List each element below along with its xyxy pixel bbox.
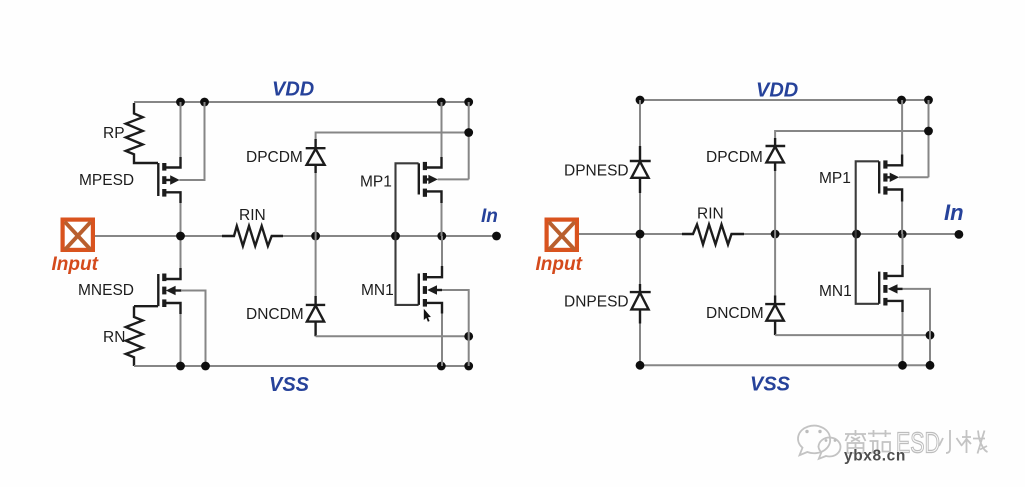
wire input rail right segment pad to RIN — [579, 233, 682, 235]
diode DPCDM right — [766, 138, 786, 171]
wire DPNESD cathode from VDD — [639, 100, 641, 147]
svg-text:Input: Input — [536, 254, 583, 275]
wire DPCDM anode to input rail — [315, 173, 317, 236]
junction on VSS rail at MNESD body column — [201, 362, 210, 371]
junction on VSS rail at MN1 body column right — [926, 361, 935, 370]
junction on VSS rail at ESD diode column right — [636, 361, 645, 370]
input pad left — [63, 220, 93, 250]
diode DNPESD — [630, 284, 651, 324]
wire DPCDM branch upper line to VDD right — [775, 131, 928, 139]
svg-text:In: In — [481, 206, 498, 227]
resistor RN — [126, 306, 143, 366]
wire MNESD drain to input rail — [180, 236, 182, 268]
transistor MP1 right (PMOS) — [879, 155, 902, 202]
junction on VSS rail at MN1 body column — [464, 362, 473, 371]
diode DNCDM right — [765, 296, 785, 336]
junction input rail at MP1/MN1 gate column — [391, 232, 400, 241]
wire input rail right segment RIN to In terminal — [744, 233, 959, 235]
wire MP1 source to VDD right — [901, 100, 903, 155]
wire DNPESD cathode from input rail — [639, 234, 641, 285]
svg-text:DPNESD: DPNESD — [564, 163, 629, 180]
diode DPCDM left — [306, 139, 326, 173]
resistor RP — [126, 103, 158, 163]
svg-text:RP: RP — [103, 125, 125, 142]
wire MNESD body to VSS — [181, 291, 206, 367]
wire MN1 drain to input rail — [441, 236, 443, 266]
junction input rail at DPCDM/DNCDM column — [771, 230, 780, 239]
wire MN1 body to VSS right — [903, 289, 931, 365]
transistor MPESD (PMOS) — [158, 157, 180, 203]
transistor MN1 right (NMOS) — [879, 265, 902, 312]
junction DNCDM line at MN1 body column — [464, 332, 473, 341]
svg-text:MP1: MP1 — [360, 174, 392, 191]
wire MP1 drain to input rail — [441, 203, 443, 236]
wire DPNESD anode to input rail — [639, 193, 641, 234]
junction on VSS rail at MN1 source column — [437, 362, 446, 371]
node In terminal dot left — [492, 232, 501, 241]
wire DPCDM anode to input rail right — [774, 171, 776, 234]
svg-text:Input: Input — [52, 254, 99, 275]
svg-text:MN1: MN1 — [819, 283, 852, 300]
wire VSS rail right circuit — [640, 364, 930, 366]
wire DNCDM anode line to MN1 body column — [316, 335, 469, 337]
wire MP1 body column to VDD — [468, 102, 470, 179]
svg-text:VDD: VDD — [756, 80, 798, 102]
wire DNCDM cathode from input rail right — [774, 234, 776, 297]
wire DPCDM branch upper line to VDD — [316, 133, 469, 141]
wire DNPESD anode to VSS — [639, 324, 641, 366]
svg-text:VSS: VSS — [269, 374, 310, 396]
svg-text:RIN: RIN — [239, 207, 266, 224]
svg-text:VDD: VDD — [272, 79, 314, 101]
svg-text:DPCDM: DPCDM — [706, 149, 763, 166]
watermark glyph xiao (小) — [939, 430, 962, 453]
resistor RIN left — [222, 226, 283, 246]
wire VSS rail left circuit — [134, 365, 469, 367]
wire MP1 body to body column right — [899, 176, 929, 178]
junction on VDD rail at MPESD body column — [200, 98, 209, 107]
junction DNCDM line at MN1 body column right — [926, 331, 935, 340]
wire MN1 source to VSS right — [902, 312, 904, 365]
wire MPESD source to VDD — [180, 102, 182, 157]
junction input rail at MP1/MN1 gate column — [852, 230, 861, 239]
diode DNCDM left — [306, 296, 325, 336]
svg-text:MNESD: MNESD — [78, 282, 134, 299]
svg-text:MN1: MN1 — [361, 282, 394, 299]
wire MPESD drain to input rail — [180, 203, 182, 236]
junction input rail at MPESD/MNESD drains — [176, 232, 185, 241]
wire MP1 drain to input rail right — [901, 202, 903, 235]
svg-text:MPESD: MPESD — [79, 172, 134, 189]
wire DNCDM cathode from input rail — [315, 236, 317, 297]
transistor MN1 left (NMOS) — [419, 266, 442, 314]
wire MN1 source to VSS — [441, 314, 443, 367]
node In terminal dot right — [955, 230, 964, 239]
junction on VDD rail at MP1 body column — [464, 98, 473, 107]
svg-text:ybx8.cn: ybx8.cn — [844, 448, 906, 465]
wire MP1 body to body column — [438, 178, 469, 180]
junction input rail at ESD diode column — [636, 230, 645, 239]
wire MP1/MN1 gate column right — [856, 161, 879, 303]
wire VDD rail left circuit — [134, 101, 469, 103]
wire MP1/MN1 gate column — [396, 163, 419, 305]
junction upper line at MP1 body column right — [924, 127, 933, 136]
watermark icon chat bubbles — [798, 426, 840, 459]
diode DPNESD — [630, 146, 651, 193]
wire input rail left segment pad to RIN — [95, 235, 222, 237]
junction on VSS rail at MNESD source column — [176, 362, 185, 371]
wire MP1 source to VDD — [441, 102, 443, 157]
junction on VDD rail at MP1 source column — [437, 98, 446, 107]
svg-text:DPCDM: DPCDM — [246, 149, 303, 166]
junction input rail at MP1/MN1 drain column — [898, 230, 907, 239]
junction on VDD rail at DPNESD column — [636, 96, 645, 105]
junction on VSS rail at MN1 source column right — [898, 361, 907, 370]
mouse cursor artifact — [424, 309, 431, 322]
wire MN1 drain to input rail right — [902, 234, 904, 265]
transistor MNESD (NMOS) — [134, 268, 182, 314]
watermark glyph fan (番) — [845, 430, 866, 453]
wire MP1 body column to VDD right — [928, 100, 930, 177]
svg-text:DNCDM: DNCDM — [246, 306, 304, 323]
junction on VDD rail at MP1 source column — [897, 96, 906, 105]
input pad right — [547, 220, 577, 250]
junction upper line at MP1 body column — [464, 128, 473, 137]
wire MNESD source to VSS — [180, 314, 182, 366]
wire MN1 body to VSS — [442, 290, 469, 366]
transistor MP1 left (PMOS) — [419, 157, 442, 203]
wire DNCDM anode line to MN1 body column right — [775, 334, 930, 336]
resistor RIN right — [682, 225, 744, 245]
svg-text:MP1: MP1 — [819, 170, 851, 187]
svg-text:RN: RN — [103, 329, 125, 346]
svg-text:VSS: VSS — [750, 374, 791, 396]
watermark glyph zhan (栈) — [962, 430, 988, 454]
wire VDD rail right circuit — [640, 99, 929, 101]
wire MPESD body to VDD — [179, 102, 204, 180]
wire input rail left segment RIN to In terminal — [283, 235, 497, 237]
junction input rail at MP1/MN1 drain column — [437, 232, 446, 241]
svg-text:In: In — [944, 200, 964, 225]
svg-text:RIN: RIN — [697, 206, 724, 223]
junction on VDD rail at MPESD source column — [176, 98, 185, 107]
junction on VDD rail at MP1 body column — [924, 96, 933, 105]
svg-text:DNPESD: DNPESD — [564, 294, 629, 311]
watermark glyph qie (茄) — [868, 430, 891, 454]
junction input rail at DPCDM/DNCDM column — [311, 232, 320, 241]
svg-text:DNCDM: DNCDM — [706, 305, 764, 322]
